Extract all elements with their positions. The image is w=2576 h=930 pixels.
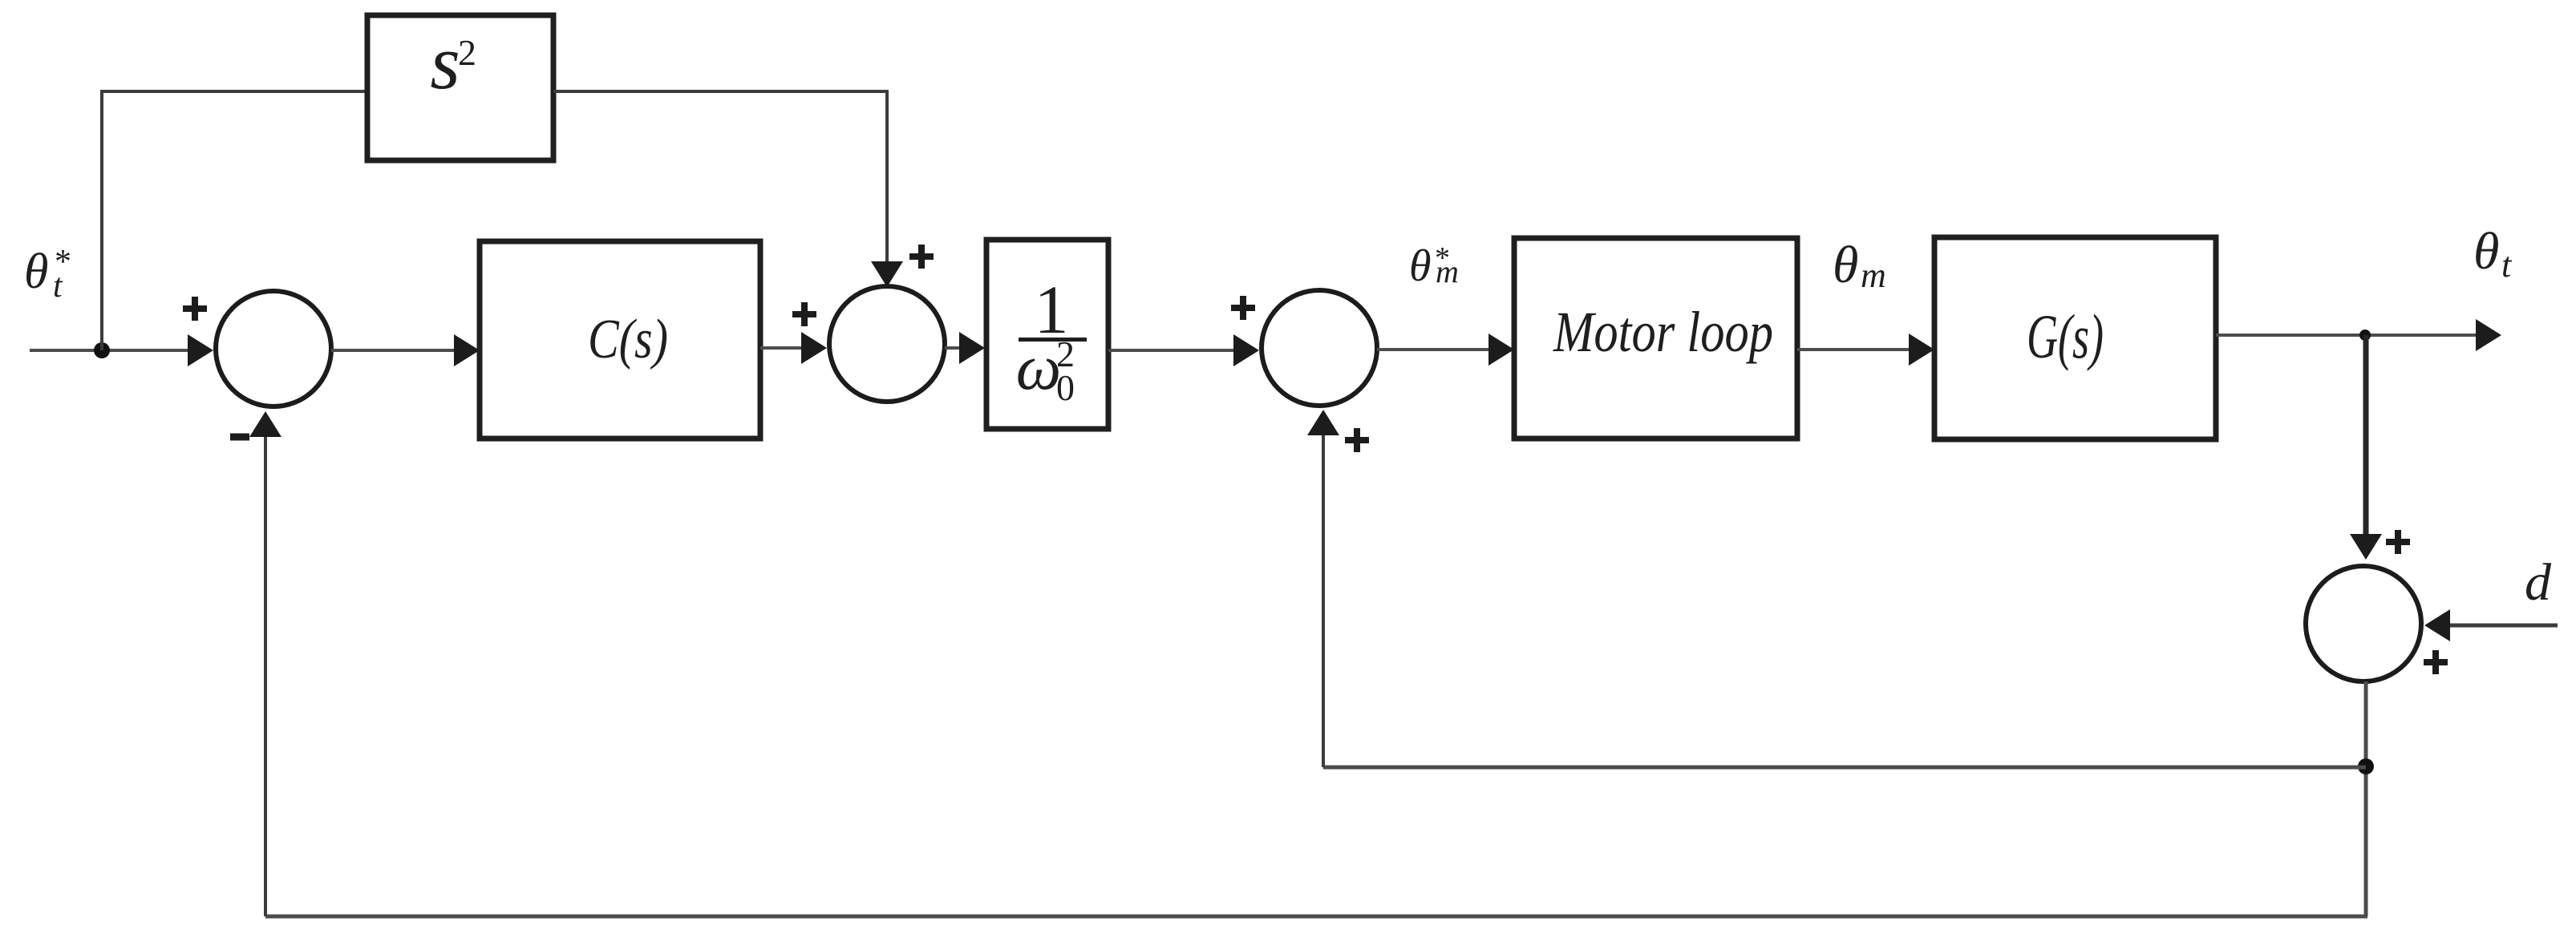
- plus sign S2 left: [792, 302, 816, 326]
- label theta_t* input: [24, 244, 71, 305]
- wire input theta_t*: [30, 334, 213, 366]
- block C(s): [480, 241, 760, 439]
- svg-text:C(s): C(s): [588, 309, 668, 370]
- wire d input: [2424, 609, 2558, 641]
- wire into s2 block: [100, 90, 367, 93]
- wire S1 to C(s): [331, 334, 480, 366]
- svg-text:s: s: [430, 19, 460, 105]
- block Motor loop: [1514, 238, 1797, 439]
- wire feedback mid horizontal: [1323, 766, 2366, 770]
- plus sign S1 left: [183, 297, 207, 321]
- plus sign S4 right: [2424, 650, 2448, 674]
- wire branch down to S4: [2350, 335, 2382, 560]
- wire branch up to s2: [100, 91, 103, 350]
- label theta_m*: [1409, 241, 1459, 291]
- node feedback branch: [2358, 758, 2374, 774]
- svg-text:Motor loop: Motor loop: [1553, 300, 1773, 364]
- plus sign S3 bottom: [1345, 428, 1369, 452]
- svg-text:2: 2: [1056, 334, 1075, 374]
- svg-text:θ: θ: [1409, 241, 1432, 291]
- minus sign S1 bottom: [230, 434, 249, 441]
- svg-text:θ: θ: [2473, 222, 2499, 281]
- svg-text:ω: ω: [1016, 333, 1061, 403]
- wire s2 output: [553, 90, 887, 93]
- svg-text:θ: θ: [1833, 236, 1858, 294]
- wire S4 output down: [2364, 681, 2368, 916]
- svg-text:θ: θ: [24, 245, 48, 299]
- svg-text:m: m: [1861, 256, 1886, 295]
- wire G(s) output to theta_t: [2216, 319, 2501, 351]
- wire C(s) to S2: [760, 332, 827, 364]
- svg-text:G(s): G(s): [2027, 301, 2104, 371]
- wire feedback up into S3: [1307, 410, 1339, 767]
- wire S3 to Motor loop: [1377, 334, 1514, 366]
- svg-text:d: d: [2525, 553, 2552, 612]
- wire feedback bottom horizontal: [265, 915, 2367, 919]
- block G(s): [1934, 237, 2216, 439]
- node output branch: [2359, 330, 2371, 341]
- svg-text:2: 2: [458, 32, 476, 73]
- summer S3: [1262, 290, 1377, 406]
- svg-text:t: t: [53, 268, 63, 305]
- wire Motor loop to G(s): [1797, 334, 1934, 366]
- wire feedback up into S1: [249, 411, 281, 916]
- plus sign S2 top: [909, 245, 934, 269]
- block 1/w0^2: [986, 240, 1108, 429]
- plus sign S4 top: [2386, 530, 2410, 554]
- summer S1: [216, 291, 331, 406]
- svg-text:t: t: [2501, 245, 2513, 285]
- wire w0 block to S3: [1108, 334, 1259, 366]
- block s2: [367, 15, 553, 160]
- label theta_m: [1833, 236, 1886, 295]
- summer S2: [829, 286, 945, 402]
- node input branch: [94, 342, 110, 358]
- plus sign S3 left: [1231, 296, 1255, 320]
- wire down into summer S2: [871, 90, 903, 287]
- svg-text:m: m: [1436, 253, 1459, 289]
- summer S4: [2306, 566, 2421, 681]
- wire S2 to w0 block: [945, 332, 985, 364]
- label theta_t output: [2473, 222, 2513, 285]
